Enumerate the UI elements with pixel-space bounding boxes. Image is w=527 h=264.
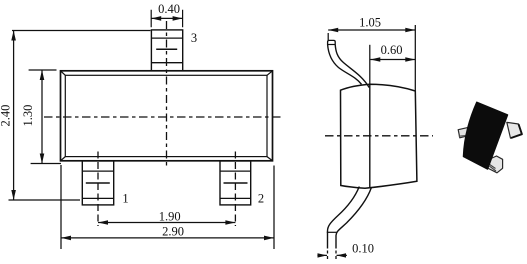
svg-text:1.90: 1.90 [159,210,181,224]
svg-text:1.30: 1.30 [21,105,35,127]
svg-text:0.60: 0.60 [381,43,403,57]
svg-text:3: 3 [191,31,197,45]
svg-text:1.05: 1.05 [359,16,381,30]
svg-text:1: 1 [122,192,128,206]
svg-text:2.40: 2.40 [0,105,13,127]
svg-text:2: 2 [258,192,264,206]
svg-text:0.40: 0.40 [158,2,180,16]
svg-text:2.90: 2.90 [162,225,184,239]
svg-text:0.10: 0.10 [352,241,374,255]
